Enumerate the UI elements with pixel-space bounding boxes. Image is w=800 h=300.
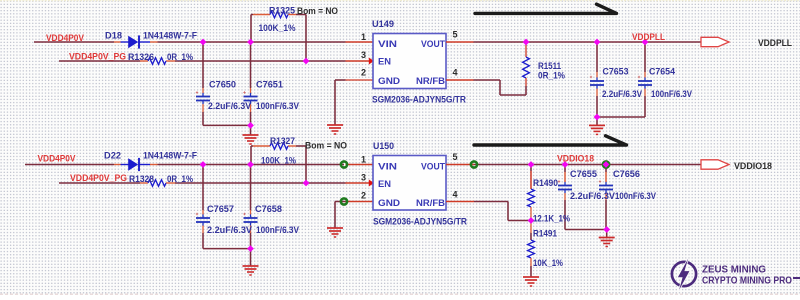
- svg-text:VDD4P0V_PG: VDD4P0V_PG: [70, 173, 127, 183]
- svg-text:R1326: R1326: [128, 52, 154, 62]
- svg-text:1: 1: [361, 155, 366, 165]
- svg-text:100nF/6.3V: 100nF/6.3V: [651, 89, 692, 99]
- svg-text:C7650: C7650: [209, 80, 236, 90]
- svg-text:C7656: C7656: [613, 169, 640, 179]
- svg-text:R1325: R1325: [269, 6, 295, 16]
- svg-text:R1327: R1327: [270, 136, 295, 146]
- svg-text:0R_1%: 0R_1%: [167, 52, 193, 62]
- svg-text:VDDIO18: VDDIO18: [557, 154, 594, 164]
- svg-text:C7655: C7655: [570, 169, 597, 179]
- svg-text:2.2uF/6.3V: 2.2uF/6.3V: [207, 225, 252, 235]
- svg-text:VOUT: VOUT: [421, 39, 445, 49]
- svg-text:GND: GND: [378, 76, 401, 86]
- svg-text:U150: U150: [373, 141, 394, 151]
- svg-text:3: 3: [361, 173, 366, 183]
- svg-text:U149: U149: [372, 19, 394, 29]
- svg-text:SGM2036-ADJYN5G/TR: SGM2036-ADJYN5G/TR: [372, 95, 466, 105]
- svg-text:SGM2036-ADJYN5G/TR: SGM2036-ADJYN5G/TR: [373, 217, 467, 227]
- svg-text:100nF/6.3V: 100nF/6.3V: [615, 191, 656, 201]
- svg-text:C7657: C7657: [207, 204, 234, 214]
- svg-text:D18: D18: [105, 31, 122, 41]
- svg-text:EN: EN: [378, 179, 391, 189]
- svg-text:R1511: R1511: [538, 61, 561, 71]
- svg-text:C7658: C7658: [255, 204, 282, 214]
- svg-text:4: 4: [453, 68, 458, 78]
- svg-text:2.2uF/6.3V: 2.2uF/6.3V: [602, 89, 642, 99]
- svg-text:VDDPLL: VDDPLL: [758, 38, 792, 48]
- svg-text:NR/FB: NR/FB: [416, 198, 446, 208]
- svg-text:C7654: C7654: [649, 67, 675, 77]
- svg-text:VDDPLL: VDDPLL: [632, 32, 665, 42]
- svg-text:Bom = NO: Bom = NO: [297, 6, 338, 16]
- svg-text:0R_1%: 0R_1%: [167, 174, 193, 184]
- svg-text:VDD4P0V: VDD4P0V: [46, 33, 84, 43]
- svg-text:2.2uF/6.3V: 2.2uF/6.3V: [208, 101, 251, 111]
- svg-text:0R_1%: 0R_1%: [538, 71, 565, 81]
- svg-text:10K_1%: 10K_1%: [533, 258, 563, 268]
- svg-text:VDD4P0V_PG: VDD4P0V_PG: [69, 52, 126, 62]
- svg-text:100K_1%: 100K_1%: [261, 156, 296, 166]
- svg-text:2.2uF/6.3V: 2.2uF/6.3V: [570, 191, 615, 201]
- svg-text:C7653: C7653: [603, 67, 629, 77]
- svg-text:NR/FB: NR/FB: [416, 76, 446, 86]
- svg-text:2: 2: [361, 68, 366, 78]
- svg-text:R1491: R1491: [533, 229, 557, 239]
- svg-text:D22: D22: [104, 151, 121, 161]
- svg-text:VIN: VIN: [378, 162, 397, 172]
- svg-text:2: 2: [361, 191, 366, 201]
- svg-text:100nF/6.3V: 100nF/6.3V: [256, 101, 299, 111]
- svg-text:3: 3: [361, 50, 366, 60]
- svg-text:1N4148W-7-F: 1N4148W-7-F: [143, 151, 197, 161]
- svg-text:CRYPTO MINING PRO: CRYPTO MINING PRO: [702, 275, 792, 287]
- svg-text:1N4148W-7-F: 1N4148W-7-F: [143, 31, 197, 41]
- svg-text:Bom = NO: Bom = NO: [305, 141, 347, 151]
- svg-text:100nF/6.3V: 100nF/6.3V: [256, 225, 299, 235]
- svg-text:12.1K_1%: 12.1K_1%: [533, 214, 570, 224]
- svg-text:VDDIO18: VDDIO18: [734, 161, 772, 171]
- svg-text:GND: GND: [378, 198, 401, 208]
- svg-text:VIN: VIN: [378, 39, 397, 49]
- svg-text:C7651: C7651: [256, 80, 283, 90]
- svg-text:4: 4: [453, 190, 458, 200]
- svg-text:1: 1: [361, 32, 366, 42]
- svg-text:EN: EN: [378, 57, 391, 67]
- svg-text:R1328: R1328: [129, 174, 154, 184]
- svg-text:R1490: R1490: [533, 178, 558, 188]
- svg-text:5: 5: [453, 152, 458, 162]
- svg-text:VOUT: VOUT: [421, 162, 445, 172]
- svg-text:100K_1%: 100K_1%: [259, 23, 296, 33]
- svg-text:5: 5: [453, 30, 458, 40]
- svg-text:VDD4P0V: VDD4P0V: [38, 154, 76, 164]
